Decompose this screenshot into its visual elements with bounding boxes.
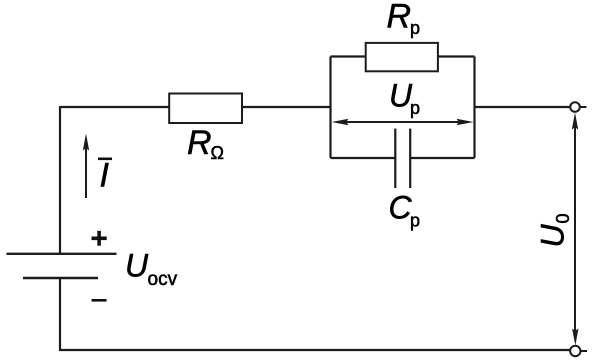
svg-text:p: p	[410, 98, 420, 118]
svg-text:U: U	[125, 248, 149, 284]
svg-text:p: p	[410, 18, 420, 38]
svg-text:p: p	[410, 211, 420, 231]
svg-text:I: I	[100, 157, 110, 195]
svg-text:C: C	[389, 190, 413, 226]
svg-text:ocv: ocv	[148, 269, 178, 290]
svg-text:R: R	[187, 124, 212, 162]
svg-text:0: 0	[553, 213, 573, 223]
svg-text:R: R	[387, 0, 412, 36]
svg-text:U: U	[535, 224, 571, 248]
svg-text:Ω: Ω	[211, 143, 224, 163]
